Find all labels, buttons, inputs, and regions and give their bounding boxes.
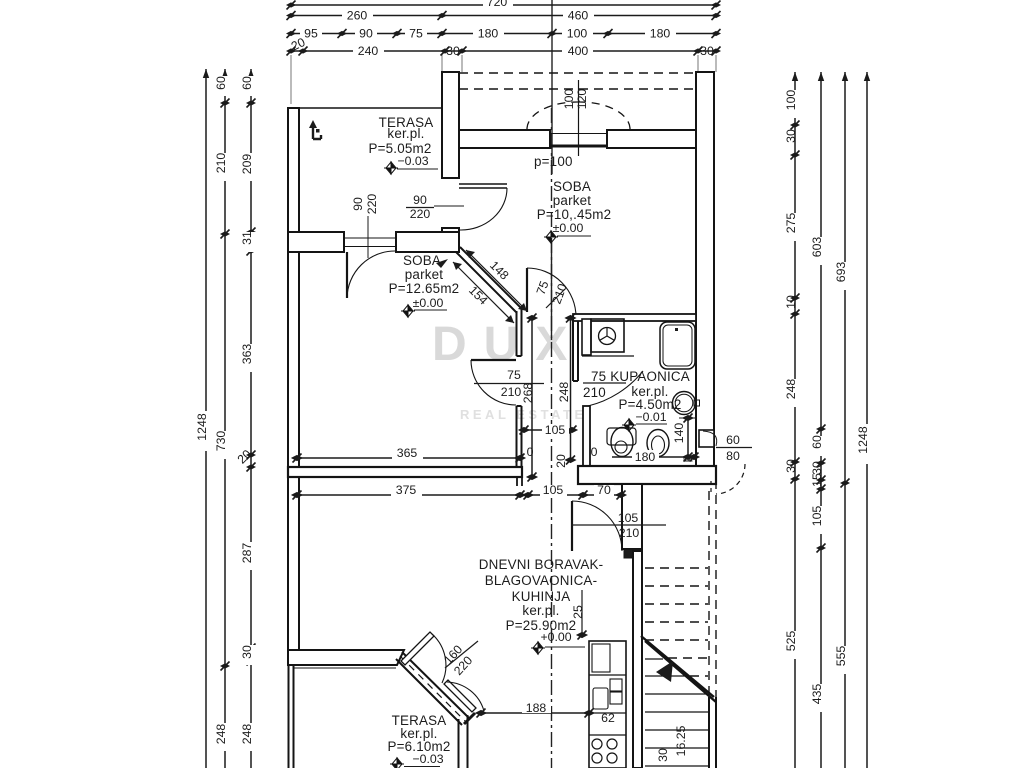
svg-text:70: 70 [597,483,611,497]
level marker soba1 [544,230,558,244]
right dim line R3 [844,72,846,768]
leader 60/80 curve [703,431,717,446]
svg-text:209: 209 [240,154,254,175]
svg-text:16.25: 16.25 [674,725,688,756]
dim labels 365/375/105/70 [351,193,740,762]
svg-text:31: 31 [240,231,254,245]
wall window band right part [607,130,696,148]
wall bottom terrace right [459,715,468,768]
svg-text:80: 80 [726,449,740,463]
dim fraction 160/220 line [445,641,478,668]
bay door leaf lower [444,680,476,712]
fraction 75/210 corridor door line [546,289,565,308]
svg-text:p=100: p=100 [534,154,573,169]
wall stub below bathroom door [583,406,590,466]
wall terrace bottom left pier [288,232,344,252]
svg-text:400: 400 [568,44,589,58]
door bathroom arc [588,371,643,406]
stairwell void dashed line left [708,491,710,697]
svg-text:30: 30 [784,129,798,143]
fraction 90/220 line and leader [406,207,434,209]
svg-text:180: 180 [650,27,671,41]
dim 25 line [581,590,583,638]
svg-text:DUX: DUX [432,318,584,371]
svg-text:105: 105 [810,506,824,527]
svg-text:±0.00: ±0.00 [413,296,444,310]
svg-text:525: 525 [784,631,798,652]
svg-text:435: 435 [810,684,824,705]
dim 188 label [522,702,551,713]
svg-text:10: 10 [784,295,798,309]
toilet cistern [607,428,636,445]
svg-text:+0.00: +0.00 [540,630,571,644]
dim 154 diagonal line [453,262,514,323]
door terrace-soba2 arc [347,251,395,298]
dim 140 bathroom vertical [687,418,689,457]
door terrace-soba2 threshold lines [344,237,396,239]
svg-text:210: 210 [214,153,228,174]
svg-text:188: 188 [526,701,547,715]
stair break diagonal double line [641,636,716,702]
wall diagonal bay band [396,652,470,725]
top dim row1 720 [291,4,716,6]
svg-text:90: 90 [359,27,373,41]
svg-text:P=10,.45m2: P=10,.45m2 [537,207,612,222]
dim 375/105/70 line [297,494,621,496]
svg-text:120: 120 [575,89,589,110]
washing machine square [591,319,624,352]
stair solid treads lower flight [645,659,709,766]
svg-text:REAL ESTATE: REAL ESTATE [460,407,587,422]
level marker terasa bottom [390,757,404,768]
kitchen top unit inner rect [592,644,610,672]
svg-text:105: 105 [545,423,566,437]
svg-text:248: 248 [557,382,571,403]
svg-text:20: 20 [554,454,568,468]
dim 268 corridor vertical [531,318,533,477]
kitchen sink small square 2 [610,692,622,704]
svg-text:95: 95 [304,27,318,41]
svg-text:240: 240 [358,44,379,58]
window axis line [578,80,580,156]
sink tap [694,400,700,406]
wall hall left stub [517,477,522,486]
stove burner circles [592,739,602,749]
stairs group [641,568,716,766]
fraction 75/210 soba2 door line [474,383,544,385]
dim 148 diagonal line [466,250,527,311]
kitchen group [589,641,626,768]
svg-text:p: p [679,455,693,462]
dim 188 line [481,712,589,714]
washing machine counter line [582,355,634,357]
door terrace-soba1 arc [460,188,507,230]
svg-text:720: 720 [487,0,508,9]
svg-text:30: 30 [784,459,798,473]
dashed balcony overhang line 1 [459,72,694,74]
svg-text:90: 90 [413,193,427,207]
kitchen sink rect [593,688,608,709]
kitchen sink small square 1 [610,679,622,691]
north symbol terrace [313,126,321,139]
fraction 60/80 niche line [716,447,752,449]
wall stub right of hall door [624,549,641,558]
wall living room bottom [288,650,404,665]
sink inner circle [675,394,693,412]
bay door leaf upper [401,632,434,665]
svg-text:210: 210 [501,385,522,399]
right dim line R1 [794,72,796,768]
svg-text:P=12.65m2: P=12.65m2 [389,281,460,296]
bidet outer [647,430,669,457]
wall bathroom top [573,314,696,321]
wall diagonal soba2 [456,247,522,313]
svg-text:60: 60 [810,435,824,449]
svg-text:75: 75 [507,368,521,382]
bathroom fixtures [582,319,700,457]
svg-text:365: 365 [397,446,418,460]
svg-text:30: 30 [446,44,460,58]
bay door arc upper [432,634,446,683]
kitchen counter outline [589,641,626,768]
svg-text:1248: 1248 [856,426,870,454]
room label texts [351,89,740,766]
fraction 105/210 hall door line [571,524,666,526]
french door arc left dashed [527,102,578,129]
svg-text:30: 30 [700,44,714,58]
wall pier A lower stub [442,228,459,252]
svg-text:75: 75 [409,27,423,41]
wall bottom terrace left [289,665,294,768]
svg-text:100: 100 [567,27,588,41]
svg-text:−0.03: −0.03 [397,154,428,168]
stair dashed treads partial [668,658,708,676]
left dim line L1 1248 [205,69,207,768]
svg-text:60: 60 [214,76,228,90]
svg-text:DNEVNI BORAVAK-: DNEVNI BORAVAK- [479,557,604,572]
svg-text:460: 460 [568,9,589,23]
svg-text:220: 220 [410,207,431,221]
wall right exterior [696,72,714,466]
fixtures placeholder [0,0,1,1]
fraction 75/210 bathroom line [583,382,626,384]
svg-text:210: 210 [619,526,640,540]
window french-door thin top line [550,133,607,135]
svg-text:30: 30 [810,461,824,475]
level marker kupaonica [622,418,636,432]
svg-text:15: 15 [810,473,824,487]
svg-text:180: 180 [635,450,656,464]
wall hall right [622,484,642,549]
svg-text:60: 60 [240,76,254,90]
wall pier A top-left of soba1 [442,72,459,178]
wall terrace top edge [288,107,442,109]
svg-text:248: 248 [784,379,798,400]
door corridor-soba1 arc [527,268,576,317]
window sill dark line [550,145,607,148]
stairwell void dashed line right [715,480,717,697]
left dim line L2 60/210/730/248 [224,69,226,768]
svg-text:SOBA: SOBA [553,179,591,194]
svg-text:105: 105 [618,511,639,525]
svg-text:140: 140 [672,423,686,444]
top dim row3 95/90/75/180/100/180 [291,33,716,35]
wall left exterior [288,108,299,659]
dim 248 corridor vertical [570,318,572,460]
svg-text:275: 275 [784,213,798,234]
svg-text:248: 248 [214,724,228,745]
axis solid top segment [551,0,553,174]
svg-text:62: 62 [601,711,615,725]
dim 365 line [297,457,520,459]
svg-text:KUHINJA: KUHINJA [512,589,571,604]
svg-text:30: 30 [240,645,254,659]
svg-text:0: 0 [591,445,598,459]
svg-text:0: 0 [527,445,534,459]
svg-text:100: 100 [784,90,798,111]
door hall-living leaf [571,501,573,551]
svg-text:555: 555 [834,646,848,667]
stairwell wall right solid bottom [709,697,716,768]
svg-text:75 KUPAONICA: 75 KUPAONICA [591,369,690,384]
entry door dashed line [710,481,712,494]
svg-text:25: 25 [571,605,585,619]
svg-text:100: 100 [562,89,576,110]
svg-text:603: 603 [810,237,824,258]
axis solid mid segment [551,242,553,340]
door hall-living arc [572,501,622,551]
svg-text:1248: 1248 [195,413,209,441]
svg-text:730: 730 [214,431,228,452]
bay door arc lower [447,682,484,711]
top dim row2 260/460 [291,15,716,17]
stair dashed treads upper flight [645,568,708,640]
level marker terasa top [384,161,398,175]
svg-text:−0.01: −0.01 [635,410,666,424]
bay band dashed centerline [400,656,466,722]
kitchen counter dividers [589,675,626,735]
svg-text:±0.00: ±0.00 [553,221,584,235]
svg-text:30: 30 [656,748,670,762]
walls group [288,72,745,768]
wall stairwell left [633,551,642,768]
wall niche rect right [699,430,714,447]
dashed balcony overhang line 2 [459,88,694,90]
wall window band left part [459,130,550,148]
right dim line R2 [820,72,822,768]
svg-text:105: 105 [543,483,564,497]
svg-text:−0.03: −0.03 [412,752,443,766]
door soba2 arc [471,360,516,405]
bathroom dims [632,450,659,461]
svg-text:60: 60 [726,433,740,447]
extension lines top [441,55,443,72]
washing machine drum spokes [600,328,615,341]
svg-text:268: 268 [521,383,535,404]
svg-text:220: 220 [365,194,379,215]
washing machine niche stub [582,319,591,355]
wall soba2 bottom band [288,467,522,477]
stair direction arrowhead [656,661,673,682]
center axis dash-dot line [551,108,553,768]
door terrace-soba1 leaf [459,183,507,185]
bathtub drain dot [675,328,678,331]
bidet inner [652,436,665,454]
svg-text:parket: parket [405,267,443,282]
interior dims and labels [292,120,752,768]
top dim row4 20/240/30/400/30 [291,50,716,52]
washing machine drum [599,328,616,345]
door corridor-soba1 leaf [526,268,528,312]
dim 180 bathroom line [612,456,698,458]
svg-text:375: 375 [396,483,417,497]
bathtub outer [660,322,695,369]
level marker dnevni [531,641,545,655]
svg-text:90: 90 [351,197,365,211]
bottom terrace top thin line [294,667,396,669]
dim 105 corridor line [524,429,572,431]
door terrace-soba2 leaf [346,252,348,298]
wall bathroom left upper [573,316,578,381]
watermark DUX [432,318,587,422]
svg-text:BLAGOVAONICA-: BLAGOVAONICA- [485,573,597,588]
svg-text:260: 260 [347,9,368,23]
entry door dashed arc outside [716,464,745,494]
french door arc right dashed [579,102,630,129]
svg-text:693: 693 [834,262,848,283]
bay band end cap [464,713,475,724]
svg-text:363: 363 [240,344,254,365]
door soba2 leaf [471,359,516,361]
leader 90/220 vertical terrace-soba2 [367,216,369,258]
wall terrace bottom right pier [396,232,459,252]
sink outer circle [673,392,696,415]
toilet bowl inner [615,441,627,453]
soba2 arrow mark [436,259,448,268]
right dim line R4 1248 [866,72,868,768]
svg-text:ker.pl.: ker.pl. [387,126,424,141]
dim 140 extension line [679,417,697,419]
svg-text:ker.pl.: ker.pl. [522,603,559,618]
left dim line L3 60/209/31/363/20/287/30/248 [250,69,252,768]
svg-text:parket: parket [553,193,591,208]
svg-text:287: 287 [240,543,254,564]
svg-text:210: 210 [583,385,606,400]
wall corridor left lower [517,406,522,477]
bathtub inner [663,325,692,366]
svg-text:180: 180 [478,27,499,41]
wall bathroom bottom band [578,466,716,484]
toilet bowl outer [611,428,633,457]
svg-text:248: 248 [240,724,254,745]
level marker soba2 [401,304,415,318]
wall corridor left upper [517,309,522,356]
svg-text:SOBA: SOBA [403,253,441,268]
